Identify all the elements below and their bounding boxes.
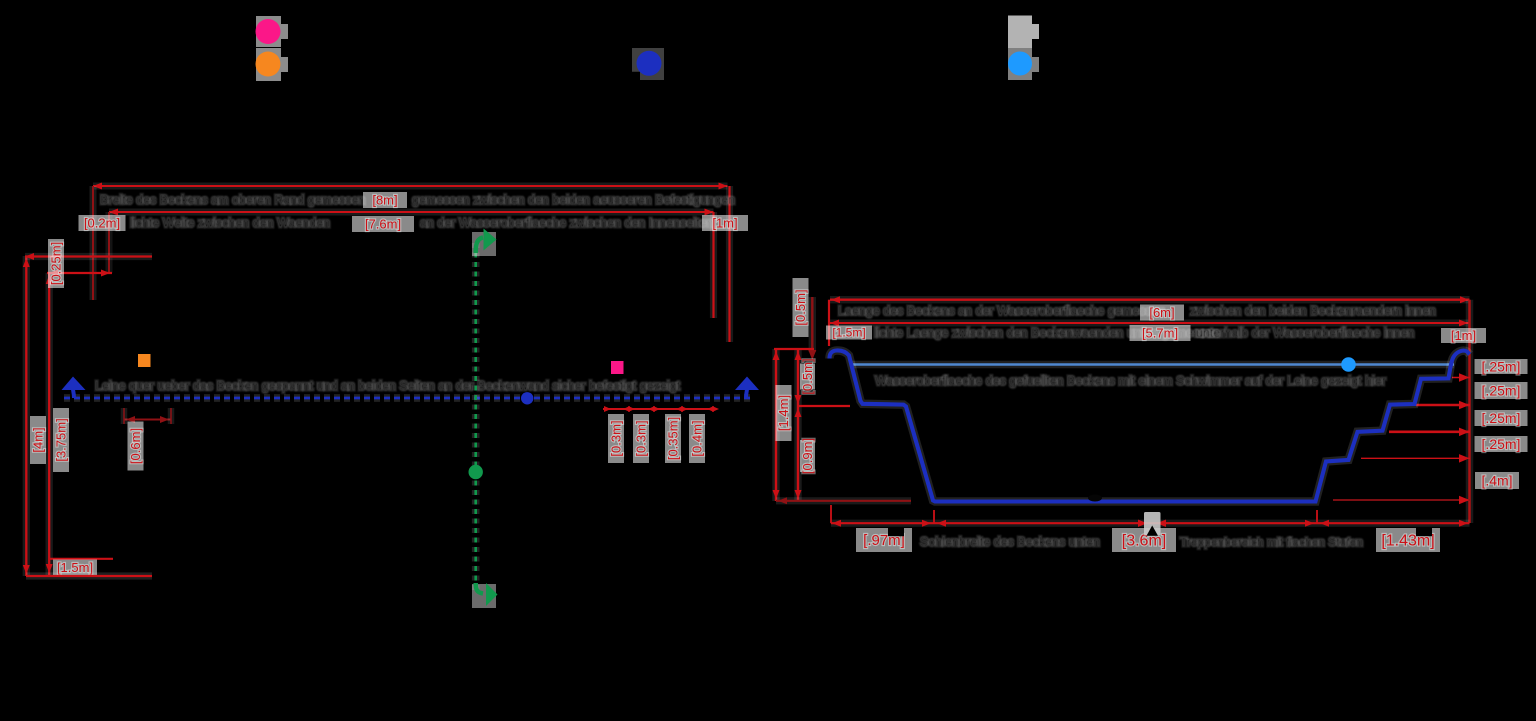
svg-text:Wendemarke (Boje) unten: Wendemarke (Boje) unten xyxy=(292,57,438,71)
svg-text:[0.9m]: [0.9m] xyxy=(800,438,815,474)
svg-text:Leine quer ueber das Becken ge: Leine quer ueber das Becken gespannt und… xyxy=(95,379,681,393)
svg-text:Sohlenbreite des Beckens unten: Sohlenbreite des Beckens unten xyxy=(920,535,1100,549)
svg-text:Schwimmer an der Wasserlinie: Schwimmer an der Wasserlinie xyxy=(1044,25,1216,39)
svg-text:[0.3m]: [0.3m] xyxy=(608,420,623,456)
svg-text:[0.3m]: [0.3m] xyxy=(633,420,648,456)
svg-text:[6m]: [6m] xyxy=(1149,305,1174,320)
svg-text:Wendemarke (Boje) oben: Wendemarke (Boje) oben xyxy=(292,25,434,39)
svg-text:[0.2m]: [0.2m] xyxy=(84,215,120,230)
svg-text:[1.5m]: [1.5m] xyxy=(832,326,865,340)
svg-text:[.25m]: [.25m] xyxy=(1482,358,1521,374)
svg-text:[0.25m]: [0.25m] xyxy=(48,242,63,285)
svg-text:[0.6m]: [0.6m] xyxy=(128,428,143,464)
svg-text:Leine mit Befestigung: Leine mit Befestigung xyxy=(676,57,796,71)
svg-text:Breite des Beckens am oberen R: Breite des Beckens am oberen Rand gemess… xyxy=(100,193,365,207)
svg-text:[0.4m]: [0.4m] xyxy=(689,420,704,456)
svg-text:[1m]: [1m] xyxy=(1451,328,1476,343)
svg-text:Laenge des Beckens an der Wass: Laenge des Beckens an der Wasseroberflae… xyxy=(838,304,1166,318)
svg-text:Treppenbereich mit flachen Stu: Treppenbereich mit flachen Stufen xyxy=(1180,535,1363,549)
svg-text:[1.4m]: [1.4m] xyxy=(776,395,791,431)
svg-text:gemessen zwischen den beiden a: gemessen zwischen den beiden aeusseren B… xyxy=(412,193,735,207)
svg-text:[8m]: [8m] xyxy=(372,192,397,207)
svg-text:[7.6m]: [7.6m] xyxy=(365,216,401,231)
svg-text:Wasseroberflaeche Linie: Wasseroberflaeche Linie xyxy=(1044,57,1181,71)
svg-text:an der Wasseroberflaeche zwisc: an der Wasseroberflaeche zwischen den In… xyxy=(420,216,714,230)
svg-text:zwischen den beiden Beckenraen: zwischen den beiden Beckenraendern innen xyxy=(1190,304,1436,318)
svg-text:Wasseroberflaeche des gefuellt: Wasseroberflaeche des gefuellten Beckens… xyxy=(875,374,1386,388)
svg-text:[0.5m]: [0.5m] xyxy=(800,358,815,394)
svg-text:[.25m]: [.25m] xyxy=(1482,382,1521,398)
svg-text:[.25m]: [.25m] xyxy=(1482,436,1521,452)
svg-text:[1m]: [1m] xyxy=(712,215,737,230)
svg-text:[.4m]: [.4m] xyxy=(1481,472,1512,488)
svg-text:[0.35m]: [0.35m] xyxy=(665,417,680,460)
svg-text:unterhalb der Wasseroberflaech: unterhalb der Wasseroberflaeche innen xyxy=(1196,326,1414,340)
svg-text:[3.75m]: [3.75m] xyxy=(53,418,68,461)
svg-text:[4m]: [4m] xyxy=(30,427,45,452)
svg-text:lichte Weite zwischen den Waen: lichte Weite zwischen den Waenden xyxy=(130,216,330,230)
svg-text:[5.7m]: [5.7m] xyxy=(1142,325,1178,340)
svg-text:[0.5m]: [0.5m] xyxy=(793,289,808,325)
svg-text:[.25m]: [.25m] xyxy=(1482,410,1521,426)
